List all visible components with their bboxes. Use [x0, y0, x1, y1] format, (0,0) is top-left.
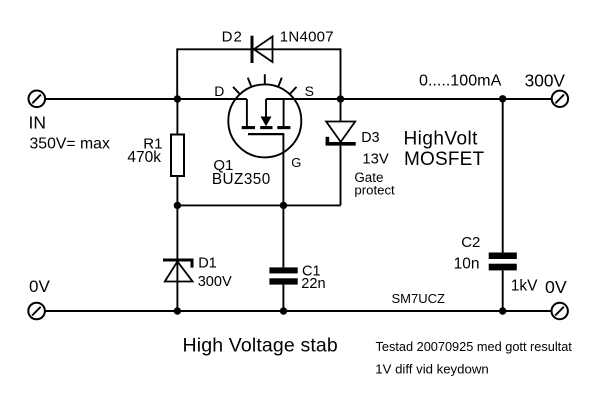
wire: S node down to D3 top — [340, 99, 342, 122]
wire: gate lead down to C1 top — [282, 134, 284, 267]
zener D1 — [163, 260, 194, 282]
wire: D2 loop top horizontal — [177, 48, 340, 50]
zener D3 — [326, 122, 356, 144]
wire: main top rail IN to drain bend — [45, 98, 247, 100]
svg-text:1N4007: 1N4007 — [280, 29, 334, 46]
terminal 0V left — [28, 303, 45, 320]
wire: D2 loop left vertical — [176, 48, 178, 99]
svg-text:1kV: 1kV — [511, 277, 538, 294]
svg-text:350V= max: 350V= max — [30, 135, 110, 152]
capacitor C1 — [269, 267, 297, 284]
svg-text:S: S — [305, 83, 314, 99]
wire: R1 bottom to mid node — [176, 177, 178, 206]
wire: D2 loop right vertical — [340, 48, 342, 99]
svg-text:IN: IN — [29, 113, 47, 133]
Q1 substrate leg — [265, 99, 267, 118]
terminal 300V — [552, 91, 568, 107]
svg-text:1V diff vid keydown: 1V diff vid keydown — [375, 362, 488, 377]
Q1 source plate — [277, 126, 290, 129]
Q1 substrate plate — [260, 126, 272, 129]
node 0V-C1 junction — [280, 307, 287, 314]
svg-text:Testad 20070925 med gott resul: Testad 20070925 med gott resultat — [376, 339, 573, 354]
svg-text:13V: 13V — [362, 151, 388, 167]
svg-text:0V: 0V — [545, 277, 567, 297]
wire: node IN down to R1 top — [176, 99, 178, 134]
svg-text:D: D — [214, 83, 224, 99]
wire: C1 bottom to 0V rail — [282, 285, 284, 311]
capacitor C2 — [489, 253, 517, 271]
node 0V-C2 junction — [499, 307, 506, 314]
Q1 drain plate — [242, 126, 255, 129]
svg-text:300V: 300V — [198, 274, 232, 290]
Q1 body circle — [228, 84, 301, 157]
svg-text:MOSFET: MOSFET — [404, 149, 485, 170]
node mid-left junction — [174, 202, 181, 209]
terminal 0V right — [552, 303, 568, 319]
wire: D3 bottom to mid rail — [340, 146, 342, 206]
wire: C2 bottom to 0V rail — [502, 270, 504, 311]
svg-text:0.....100mA: 0.....100mA — [419, 72, 502, 90]
svg-text:G: G — [291, 155, 301, 170]
terminal IN — [29, 91, 46, 108]
Q1 gate bar — [248, 133, 284, 135]
Q1 heatsink rays — [233, 74, 296, 94]
node IN junction — [174, 95, 181, 102]
svg-text:22n: 22n — [301, 276, 325, 292]
svg-text:High Voltage stab: High Voltage stab — [183, 335, 338, 357]
svg-text:D1: D1 — [198, 256, 217, 272]
transistor Q1 MOSFET — [228, 74, 301, 157]
node 300V junction — [499, 95, 506, 102]
wire: 0V bottom rail — [45, 310, 552, 312]
node S junction — [337, 95, 344, 102]
svg-text:protect: protect — [354, 183, 395, 198]
svg-text:470k: 470k — [127, 149, 161, 166]
svg-text:HighVolt: HighVolt — [404, 128, 479, 149]
svg-text:0V: 0V — [29, 277, 50, 296]
Q1 substrate arrow — [261, 117, 272, 127]
node gate junction — [280, 202, 287, 209]
svg-text:BUZ350: BUZ350 — [212, 171, 271, 188]
Q1 source leg — [283, 99, 285, 127]
resistor R1 — [171, 135, 184, 177]
svg-text:10n: 10n — [454, 256, 480, 273]
wire: mid node down through D1 to 0V rail — [176, 205, 178, 311]
wire: 300V node down to C2 top — [502, 99, 504, 253]
svg-text:D2: D2 — [222, 29, 243, 46]
node 0V-left junction — [174, 307, 181, 314]
wire: mid rail from R1/D1 node to D3 bottom — [177, 204, 340, 206]
Q1 drain lead — [246, 99, 248, 127]
diode D2 — [252, 36, 273, 63]
wire: main top rail source to 300V — [266, 98, 552, 100]
svg-text:SM7UCZ: SM7UCZ — [392, 291, 446, 306]
svg-text:300V: 300V — [525, 71, 566, 91]
svg-text:C2: C2 — [461, 234, 480, 251]
svg-text:D3: D3 — [361, 130, 379, 146]
